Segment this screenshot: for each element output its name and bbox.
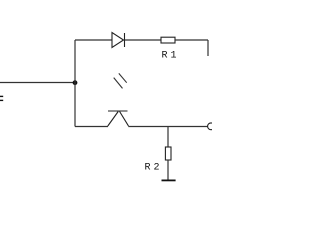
diode D1 — [112, 33, 125, 48]
node output terminal — [208, 123, 215, 130]
wire input horizontal — [0, 82, 75, 84]
svg-text:R 2: R 2 — [145, 163, 160, 174]
wire top to diode — [75, 39, 112, 41]
label fragment at left edge — [0, 96, 3, 100]
wire vertical left branch — [74, 40, 76, 127]
wire R2 stem top — [167, 127, 169, 148]
wire bottom left — [75, 126, 108, 128]
wire R1 to right — [175, 39, 208, 41]
resistor R1 — [161, 37, 175, 43]
svg-text:R 1: R 1 — [162, 50, 177, 61]
resistor R2 — [165, 147, 171, 160]
wire diode to R1 — [125, 39, 162, 41]
ground — [162, 179, 176, 181]
wire bottom right — [128, 126, 207, 128]
node junction — [73, 80, 78, 85]
light rays — [114, 73, 127, 88]
transistor Q1 phototransistor — [108, 111, 129, 126]
wire R2 stem bottom — [167, 160, 169, 180]
wire stub down right — [207, 40, 209, 56]
